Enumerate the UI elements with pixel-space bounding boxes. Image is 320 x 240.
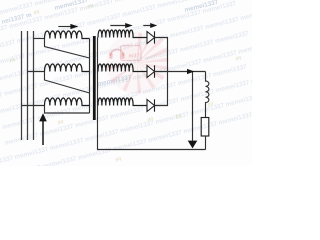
svg-text:m37: m37: [129, 54, 140, 60]
